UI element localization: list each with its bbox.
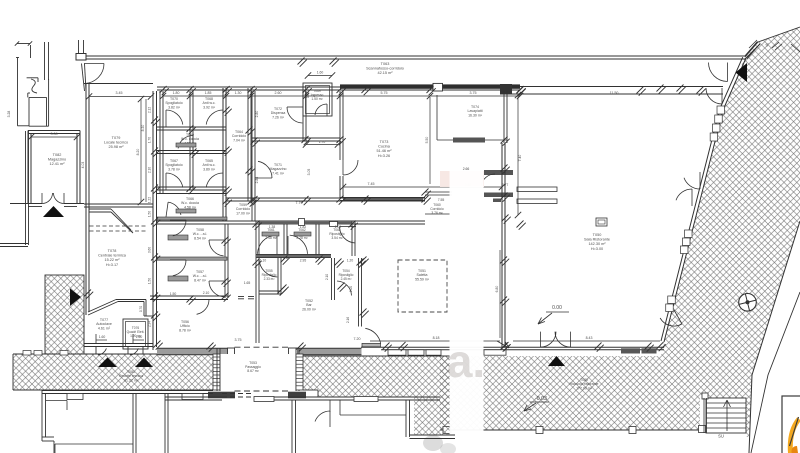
- window sill boxes bottom wall left part: [388, 350, 406, 355]
- svg-text:12.41 m²: 12.41 m²: [50, 162, 66, 166]
- door arc wc doccia 450: [192, 136, 194, 151]
- svg-text:3.75: 3.75: [235, 338, 242, 342]
- small tick rects on band top edge: [23, 351, 31, 356]
- svg-text:5.75: 5.75: [381, 91, 388, 95]
- hatched band right of passaggio: [303, 356, 450, 397]
- svg-text:3.82 m²: 3.82 m²: [168, 105, 181, 109]
- lower-left step: [42, 436, 54, 438]
- dim 8.30 vertical: [145, 99, 147, 202]
- door arc T071: [255, 177, 272, 179]
- door arc T068: [222, 110, 224, 127]
- double door on diagonal wall into dining room: [699, 172, 701, 189]
- svg-text:177.00 m²: 177.00 m²: [576, 386, 593, 390]
- svg-text:a.: a.: [447, 335, 485, 387]
- svg-text:4.03: 4.03: [81, 162, 85, 169]
- dashed lines centrale termica: [90, 225, 147, 227]
- svg-text:H=3.17: H=3.17: [106, 263, 118, 267]
- svg-text:T079: T079: [112, 136, 121, 140]
- hatch outer boundary line right: [749, 221, 800, 453]
- shower bar T058: [168, 235, 188, 240]
- passaggio walls: [216, 348, 218, 391]
- svg-text:8.67 m²: 8.67 m²: [247, 369, 259, 373]
- lower-left building left wall: [41, 391, 43, 442]
- room T079 left wall: [85, 84, 87, 208]
- lower building interior step: [46, 400, 67, 402]
- svg-text:8.30: 8.30: [141, 125, 145, 132]
- svg-text:8.47 m²: 8.47 m²: [194, 278, 207, 282]
- lavapiatti right wall: [503, 91, 505, 143]
- corridor T059 bottom wall: [157, 220, 425, 222]
- black triangle below sala door: [548, 356, 565, 366]
- wall between T062 T063: [315, 224, 317, 259]
- black triangle band 1: [98, 358, 117, 368]
- svg-text:1.20: 1.20: [347, 259, 354, 263]
- svg-text:8.54 m²: 8.54 m²: [194, 236, 207, 240]
- svg-text:1.70: 1.70: [319, 140, 326, 144]
- svg-text:3.08: 3.08: [51, 132, 58, 136]
- svg-text:0.00: 0.00: [552, 305, 562, 311]
- lower building inner wall 1: [132, 394, 134, 453]
- corridor T064 right wall: [247, 88, 249, 201]
- svg-text:2.12: 2.12: [148, 107, 152, 113]
- door arc T065: [222, 173, 224, 190]
- pass-through bar 2: [484, 193, 513, 198]
- svg-text:7.04 m²: 7.04 m²: [233, 138, 246, 142]
- dim 8.20 vertical: [140, 99, 142, 202]
- hatch boundary wall top-right bend: [745, 42, 758, 57]
- dark fill kitchen bottom wall: [343, 198, 423, 201]
- door at bottom of diagonal wall: [674, 310, 682, 324]
- ripostiglio 2.33 walls: [277, 258, 279, 295]
- svg-text:3.75: 3.75: [470, 91, 477, 95]
- door arc T058 inner: [170, 219, 186, 221]
- svg-text:1.70: 1.70: [148, 137, 152, 143]
- svg-text:Cucina: Cucina: [378, 144, 391, 148]
- room T079 bottom wall: [84, 203, 153, 205]
- grey bar T061: [262, 232, 279, 236]
- white pier on row top wall 2: [330, 222, 338, 227]
- striped jamb left of passaggio: [213, 354, 220, 390]
- svg-text:55.59 m²: 55.59 m²: [415, 277, 430, 281]
- svg-text:2.60: 2.60: [275, 91, 282, 95]
- dark fill rooms row top wall: [259, 222, 352, 225]
- svg-text:91.22 m²: 91.22 m²: [124, 378, 139, 382]
- svg-text:1.80: 1.80: [173, 91, 180, 95]
- break slashes interior batch2: [223, 107, 230, 114]
- door arc T063r: [340, 227, 356, 244]
- thick filled top wall kitchen section: [340, 84, 520, 88]
- door arc T057 inner: [170, 259, 186, 261]
- lower-centre right wall: [405, 400, 407, 437]
- svg-text:1.38: 1.38: [269, 225, 276, 229]
- svg-text:15.22 m²: 15.22 m²: [105, 258, 121, 262]
- svg-text:T050: T050: [593, 233, 602, 237]
- break slashes interior: [223, 198, 230, 205]
- svg-text:Scannafosso-corridoio: Scannafosso-corridoio: [366, 66, 404, 70]
- shower bar T057: [168, 276, 188, 281]
- svg-text:2.10: 2.10: [148, 167, 152, 173]
- dim 1.60 T077: [96, 339, 107, 341]
- svg-text:2.34: 2.34: [148, 321, 152, 327]
- wall y127 under T070/T068: [157, 126, 226, 128]
- double door room T082: [41, 193, 43, 204]
- diagonal right wall: [664, 58, 746, 342]
- svg-text:7.41 m²: 7.41 m²: [272, 171, 285, 175]
- wall y217 under T066: [157, 217, 227, 220]
- white post left of passage opening: [228, 348, 235, 356]
- room T079 top edge: [84, 83, 153, 85]
- lower-centre bottom line: [410, 434, 456, 436]
- pass-through bar 1: [484, 170, 513, 175]
- wall y187: [157, 186, 226, 188]
- hatched band bottom-left: [13, 354, 213, 390]
- svg-text:T082: T082: [53, 153, 62, 157]
- wall under row: [256, 254, 331, 256]
- svg-text:3.60: 3.60: [148, 247, 152, 253]
- dashed passage continuation: [222, 393, 254, 395]
- door T054: [337, 281, 352, 296]
- hatched strip left: [45, 275, 84, 354]
- grey bar T062: [294, 232, 311, 236]
- svg-text:Sala Ristorante: Sala Ristorante: [584, 237, 610, 241]
- door on diagonal wall second: [721, 88, 723, 104]
- svg-text:2.00: 2.00: [349, 286, 353, 292]
- annex bottom wall: [84, 343, 153, 345]
- dim 7.45: [343, 186, 502, 188]
- arc near lavapiatti: [481, 174, 495, 186]
- dim 1.60 above ingresso: [308, 75, 332, 77]
- shower bar T066: [176, 209, 196, 213]
- niche squares on diagonal wall middle: [685, 230, 693, 238]
- pillar top-left of main building: [76, 54, 86, 61]
- white pier in thick wall: [433, 83, 443, 91]
- svg-text:1.30: 1.30: [235, 91, 242, 95]
- stair treads: [706, 402, 746, 404]
- dim 6.80 vertical: [499, 250, 501, 338]
- threshold mark corridor: [238, 296, 244, 298]
- svg-text:6.80: 6.80: [495, 286, 499, 293]
- entrance door arc at top-left: [84, 63, 104, 65]
- svg-text:0.70: 0.70: [139, 306, 143, 312]
- ramp below T079: [90, 208, 112, 210]
- break slashes at top wall junctions: [160, 86, 167, 93]
- svg-text:2.10: 2.10: [325, 274, 329, 280]
- door arc T070: [165, 110, 167, 127]
- svg-text:2.86: 2.86: [255, 177, 259, 184]
- svg-text:7.40: 7.40: [518, 155, 522, 162]
- tapered left wall below entrance: [82, 64, 85, 92]
- svg-text:1.60: 1.60: [136, 335, 143, 339]
- top-left mini structure: [17, 43, 30, 45]
- svg-text:1.85: 1.85: [205, 91, 212, 95]
- svg-text:51.46 m²: 51.46 m²: [377, 149, 393, 153]
- kitchen left wall: [339, 91, 341, 160]
- left block outer-left inner wall: [159, 91, 161, 193]
- svg-text:7.20: 7.20: [354, 337, 361, 341]
- niche squares on diagonal wall upper: [717, 106, 725, 114]
- room T082 walls: [28, 130, 80, 132]
- lower-left building top wall: [42, 390, 213, 392]
- black triangle band 2: [135, 358, 153, 368]
- ledge right of diagonal: [116, 299, 146, 301]
- svg-text:1.65: 1.65: [244, 281, 251, 285]
- niche squares on diagonal wall lower: [668, 296, 676, 304]
- svg-text:2.05: 2.05: [335, 225, 342, 229]
- svg-text:1.60: 1.60: [317, 71, 324, 75]
- door arcs below annex: [98, 348, 107, 355]
- wall under T057 double: [150, 295, 228, 297]
- bottom wall door leaf: [362, 343, 381, 346]
- svg-text:1.50 m²: 1.50 m²: [311, 97, 323, 101]
- hatched terrace and perimeter band right: [440, 27, 800, 437]
- break slashes along left wall: [151, 117, 158, 124]
- table symbol in sala: [596, 218, 607, 226]
- left rooms right wall: [224, 224, 226, 298]
- watermark pink block: [440, 171, 484, 187]
- serving counter 1: [517, 187, 557, 192]
- stair left jamb: [702, 393, 708, 399]
- door arc T062: [287, 236, 289, 255]
- svg-text:SU: SU: [718, 434, 724, 439]
- striped jamb right of passaggio: [296, 354, 303, 390]
- sala main double door: [540, 332, 542, 348]
- kitchen bottom wall: [340, 197, 425, 199]
- svg-text:3.78 m²: 3.78 m²: [168, 167, 181, 171]
- svg-text:8.78 m²: 8.78 m²: [179, 328, 192, 332]
- svg-text:2.10: 2.10: [203, 291, 210, 295]
- door arc near saletta bottom: [365, 328, 380, 343]
- inner top wall right thick part: [500, 86, 723, 88]
- door posts below annex: [95, 347, 97, 355]
- svg-text:1.60: 1.60: [99, 335, 106, 339]
- window box lower building 1: [67, 394, 83, 400]
- room T078 bottom-left diagonal: [88, 302, 118, 316]
- svg-text:Locale tecnico: Locale tecnico: [104, 140, 128, 144]
- svg-text:7.55: 7.55: [438, 198, 445, 202]
- thick wall below passaggio left: [208, 392, 235, 399]
- row right wall: [351, 221, 353, 256]
- watermark bottom blobs: [423, 435, 443, 451]
- window sill boxes sala: [621, 348, 640, 353]
- svg-text:1.50: 1.50: [148, 211, 152, 217]
- dim 7.40 vertical: [517, 95, 519, 215]
- svg-text:16.30 m²: 16.30 m²: [468, 113, 483, 117]
- bar right wall: [358, 258, 360, 327]
- lower-centre small room: [339, 400, 341, 415]
- room T076 box: [123, 319, 148, 349]
- saletta dashed rectangle: [398, 260, 447, 312]
- room T054 walls: [331, 258, 333, 300]
- svg-text:1.22: 1.22: [148, 197, 152, 203]
- svg-text:7.79: 7.79: [296, 201, 303, 205]
- terrace bottom edge line: [440, 429, 700, 431]
- shower bar T069: [176, 143, 196, 147]
- window top lower-centre: [354, 397, 378, 402]
- left edge wall going down: [25, 131, 27, 245]
- dimension line top with ticks: [163, 95, 520, 97]
- dim 8.43: [513, 340, 660, 342]
- logo box bottom right: [782, 396, 800, 453]
- vent circle with cross: [739, 294, 757, 312]
- svg-text:Magazzino: Magazzino: [48, 157, 66, 161]
- svg-text:-0.03: -0.03: [535, 396, 547, 402]
- lavapiatti counter bar: [453, 138, 485, 143]
- dim 1.60 T076: [133, 339, 144, 341]
- lower-centre building walls: [164, 394, 166, 453]
- svg-text:3.89 m²: 3.89 m²: [203, 167, 216, 171]
- svg-text:7.26 m²: 7.26 m²: [272, 115, 285, 119]
- door arc T061: [276, 235, 278, 255]
- svg-text:3.05: 3.05: [307, 169, 311, 176]
- door arc T057: [209, 280, 225, 282]
- corridor T060 walls: [425, 191, 452, 193]
- left edge wall bottom stub: [0, 243, 28, 245]
- svg-text:1.50: 1.50: [148, 278, 152, 284]
- wall left of dispensa: [251, 91, 253, 221]
- wall y151: [157, 150, 226, 152]
- svg-text:2.66: 2.66: [463, 167, 470, 171]
- window box lower building 2: [182, 394, 203, 400]
- corridor T059 top wall: [226, 197, 425, 199]
- svg-text:4.61 m²: 4.61 m²: [98, 326, 111, 330]
- slash on annex left wall: [84, 290, 91, 297]
- black triangle marker top-right: [736, 63, 748, 82]
- lower building inner line: [55, 443, 133, 445]
- left block right wall by corridor T064: [222, 88, 224, 221]
- dim 5.50 vertical: [429, 97, 431, 184]
- small room box top-left: [28, 97, 30, 126]
- black triangle right in left strip: [70, 289, 81, 307]
- white sill pier on row top wall: [299, 219, 305, 226]
- passaggio dashed lines: [235, 390, 289, 392]
- inner top wall of building: [157, 86, 520, 88]
- svg-text:11.50: 11.50: [610, 91, 619, 95]
- svg-text:1.82: 1.82: [300, 225, 307, 229]
- door arc T058: [209, 239, 225, 241]
- lavapiatti partition left: [436, 95, 438, 140]
- stair arrow: [726, 401, 728, 431]
- svg-text:3.92 m²: 3.92 m²: [203, 105, 216, 109]
- svg-text:8.43: 8.43: [586, 336, 593, 340]
- hatch patch right of lower building: [414, 397, 452, 435]
- svg-text:T078: T078: [108, 249, 117, 253]
- dim 3.08: [31, 136, 77, 138]
- wall stub above pillar: [78, 40, 80, 54]
- svg-text:7.45: 7.45: [368, 182, 375, 186]
- slash near wall bend: [749, 40, 757, 48]
- passaggio room white: [220, 354, 296, 391]
- svg-text:8.20: 8.20: [136, 149, 140, 156]
- svg-text:2.33 m²: 2.33 m²: [264, 277, 275, 281]
- level -0.03 arrow: [524, 403, 536, 411]
- door arc T066: [166, 202, 168, 217]
- logo orange swirl: [790, 419, 799, 453]
- level arrow: [538, 313, 552, 324]
- svg-text:17.00 m²: 17.00 m²: [236, 211, 251, 215]
- lavapiatti bottom line: [437, 139, 507, 141]
- wall between T061 T062: [283, 224, 285, 259]
- svg-text:2.45 m²: 2.45 m²: [341, 277, 352, 281]
- dark pier on inner wall: [500, 84, 512, 94]
- grey wall under T058: [157, 257, 227, 260]
- sala left wall: [501, 143, 503, 347]
- dashed passage opening in bottom wall: [235, 346, 289, 348]
- svg-text:5.50: 5.50: [425, 137, 429, 144]
- left block mid vertical wall: [189, 91, 191, 190]
- svg-text:1.50: 1.50: [170, 292, 177, 296]
- stairs block: [706, 398, 746, 433]
- step and squiggle symbol top-left: [27, 77, 38, 79]
- svg-text:25.98 m²: 25.98 m²: [109, 145, 125, 149]
- svg-text:H=3.00: H=3.00: [591, 247, 603, 251]
- svg-text:Centrale termica: Centrale termica: [98, 253, 127, 257]
- arrow tick left of sala wall: [497, 341, 509, 348]
- row left wall: [255, 221, 257, 343]
- door arc T072: [287, 106, 303, 108]
- svg-text:3.28: 3.28: [7, 111, 11, 118]
- lower-centre inner wall 2: [291, 400, 293, 453]
- svg-text:H=3.26: H=3.26: [378, 154, 390, 158]
- svg-text:26.00 m²: 26.00 m²: [302, 307, 317, 311]
- svg-text:2.16: 2.16: [346, 317, 350, 323]
- ingresso T069 box: [303, 83, 332, 116]
- thick wall below passaggio right: [288, 392, 306, 399]
- double door on diagonal wall upper: [727, 63, 729, 82]
- hatch outer parallel line right: [751, 292, 800, 453]
- bottom outer wall right part: [361, 346, 664, 348]
- svg-text:42.15 m²: 42.15 m²: [378, 71, 394, 75]
- dispensa right wall: [302, 91, 304, 141]
- terrace edge posts: [443, 427, 450, 434]
- svg-text:T073: T073: [380, 140, 389, 144]
- bottom wall solid between posts and door: [298, 348, 362, 355]
- serving counter 2: [517, 199, 557, 204]
- svg-text:T063: T063: [381, 62, 390, 66]
- svg-text:142.30 m²: 142.30 m²: [588, 242, 606, 246]
- door arc T056: [194, 299, 209, 301]
- kitchen door: [342, 160, 344, 175]
- door ripostiglio 2.33: [259, 259, 277, 277]
- tick top right: [772, 42, 779, 48]
- dim 8.18: [370, 340, 500, 342]
- door arc T067: [165, 173, 167, 190]
- svg-text:3.54 m²: 3.54 m²: [331, 236, 343, 240]
- watermark white stripe: [450, 171, 484, 453]
- svg-text:8.18: 8.18: [433, 336, 440, 340]
- svg-text:2.80: 2.80: [255, 111, 259, 118]
- black triangle below T082 door: [43, 206, 64, 217]
- svg-text:3.45: 3.45: [116, 91, 123, 95]
- tick marks on corridor: [298, 58, 305, 65]
- wall y193 under T067/T065 block: [157, 193, 226, 195]
- svg-text:2.95: 2.95: [300, 259, 307, 263]
- white post right of passage opening: [289, 348, 298, 356]
- bottom outer wall left thick part: [157, 348, 228, 355]
- dispensa bottom wall: [252, 137, 340, 139]
- door arc ingresso: [326, 104, 328, 116]
- pass-through bar small: [493, 199, 501, 203]
- outer top wall: [85, 55, 745, 57]
- top wall bend to hatch corner: [745, 42, 758, 57]
- dim 1.70: [306, 144, 338, 146]
- left outer wall of main building: [152, 91, 154, 350]
- lower-centre door: [329, 400, 331, 412]
- short boundary line at top right corner: [791, 44, 800, 52]
- dim 3.45: [89, 96, 151, 98]
